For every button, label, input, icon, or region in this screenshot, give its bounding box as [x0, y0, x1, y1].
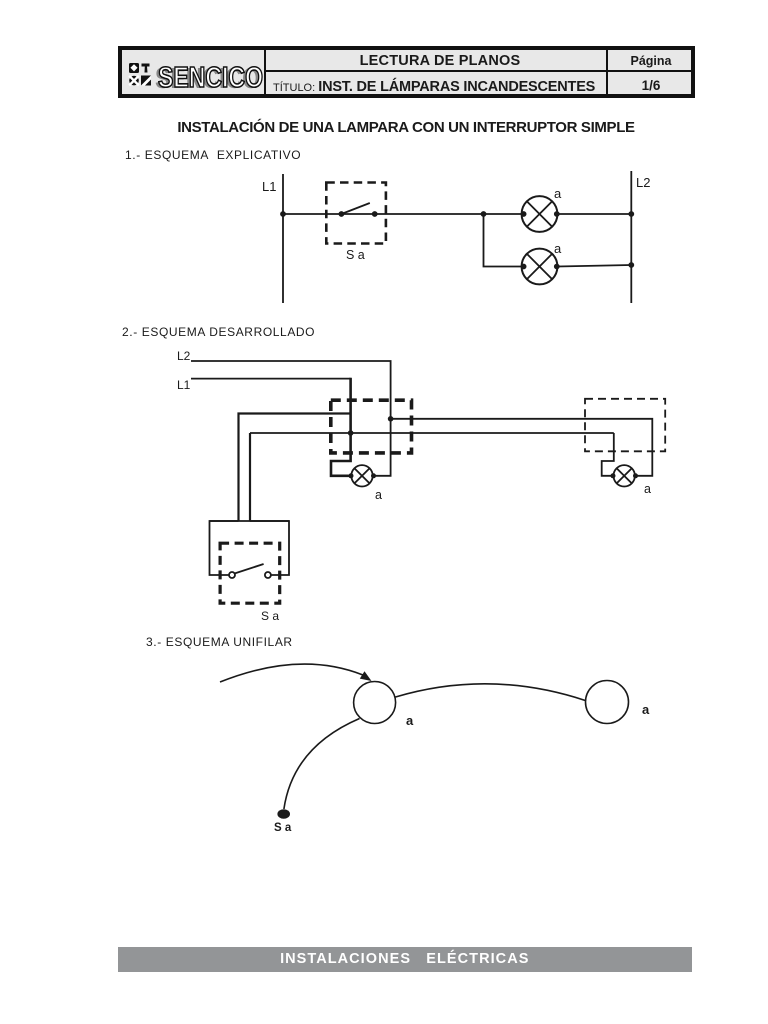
svg-text:a: a [375, 488, 382, 502]
svg-text:L1: L1 [177, 378, 191, 392]
svg-text:L1: L1 [262, 179, 276, 194]
svg-text:a: a [554, 186, 562, 201]
svg-text:S a: S a [261, 609, 279, 623]
svg-text:a: a [644, 482, 651, 496]
svg-text:L2: L2 [636, 175, 650, 190]
svg-text:S a: S a [346, 248, 365, 262]
svg-text:S a: S a [274, 822, 292, 834]
svg-text:L2: L2 [177, 349, 191, 363]
svg-text:a: a [406, 713, 414, 728]
svg-text:a: a [642, 702, 650, 717]
svg-text:a: a [554, 241, 562, 256]
